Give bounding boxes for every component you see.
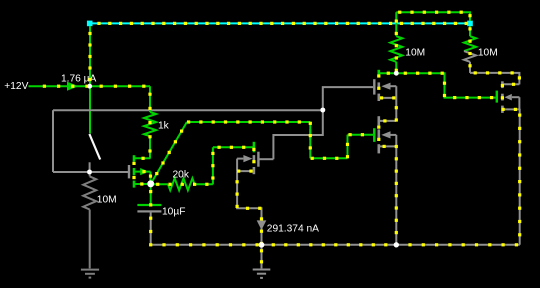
current dots top wire vertical (88, 32, 91, 35)
transistor M5 bulk lead (391, 85, 397, 87)
ground G2 (253, 269, 271, 271)
wire M3 gate net (396, 73, 495, 97)
transistor M5 drain lead (379, 72, 397, 74)
wire M2 gate net up (347, 135, 349, 159)
transistor M4 gate plate (257, 152, 259, 167)
transistor M1 bulk-source link (150, 172, 152, 184)
transistor M4 channel tick bottom (253, 167, 256, 174)
wire M2 bulk-source (395, 135, 397, 147)
node bottom rail right top (394, 242, 399, 247)
wire gray rail to M5 gate (323, 87, 373, 110)
transistor M4 channel tick top (253, 142, 256, 153)
wire R5 to M3 drain (470, 73, 519, 85)
svg-text:10M: 10M (478, 47, 498, 58)
capacitor C1 bottom plate (137, 210, 161, 212)
wire M4 gate to gray net (273, 110, 322, 159)
wire M2 source to bottom rail (395, 146, 397, 244)
node A2 junction top (259, 242, 265, 248)
transistor M1 gate plate (128, 165, 130, 178)
transistor M1 drain lead (134, 157, 151, 159)
resistor R4 10M (390, 36, 402, 62)
resistor R1 10M (83, 176, 96, 209)
svg-text:1k: 1k (158, 120, 170, 131)
switch S1 bottom contact (89, 162, 91, 172)
svg-text:10M: 10M (405, 47, 425, 58)
transistor M2 gate plate (373, 128, 375, 142)
current dots right column M3 (514, 108, 517, 111)
node gray rail junction top (320, 108, 325, 113)
post square right (467, 21, 473, 27)
node switch bottom (87, 170, 92, 175)
transistor M2 bulk arrow (381, 131, 390, 138)
transistor M2 bulk lead (391, 134, 397, 136)
transistor M4 bulk arrow (243, 155, 252, 162)
current dots path 1 (43, 85, 46, 88)
wire M3 bulk-source (518, 97, 520, 109)
resistor R3 20k (168, 178, 195, 190)
node M1 source junction (147, 180, 154, 187)
wire M2 gate net horizontal (187, 121, 310, 123)
ground G1 (81, 269, 99, 271)
wire gray box bottom / gate lead M1 (53, 171, 128, 173)
wire M1 source to capacitor (150, 184, 152, 204)
resistor R4 10M left leads (395, 12, 397, 36)
wire diagonal M1 source to M2 gate net (151, 122, 187, 184)
transistor M2 source lead (379, 145, 397, 147)
wire M5 source down (395, 86, 397, 121)
transistor M1 bulk lead (134, 171, 151, 173)
resistor R1 10M bottom-left leads (89, 172, 91, 176)
transistor M5 gate plate (373, 79, 375, 94)
transistor M1 channel ticks (133, 155, 136, 161)
transistor M3 channel tick bottom (501, 106, 504, 113)
transistor M3 source lead (502, 108, 519, 110)
svg-text:10M: 10M (97, 194, 117, 205)
current dots supply branch (468, 14, 471, 17)
current dots cap branch (149, 190, 152, 193)
ammeter A2 arrow (257, 220, 267, 230)
node bottom rail right (394, 242, 399, 247)
wire gray box left (52, 110, 54, 172)
node gray rail junction (320, 108, 325, 113)
svg-text:+12V: +12V (4, 81, 28, 92)
wire top supply branch (396, 12, 470, 21)
svg-text:291.374 nA: 291.374 nA (267, 223, 319, 234)
wire to ground 2 (261, 245, 263, 269)
transistor M2 drain lead (379, 120, 397, 122)
transistor M2 channel tick mid (377, 129, 380, 141)
wire M2 gate net right (310, 157, 347, 159)
wire bottom rail (151, 244, 520, 246)
switch S1 lever (89, 134, 100, 160)
transistor M3 bulk arrow (505, 94, 512, 101)
wire +12V rail (29, 85, 151, 87)
current dots ground 2 stub (260, 249, 263, 252)
wire gray box top (53, 109, 323, 111)
wire capacitor to rail (150, 213, 152, 245)
current dots M3 gate wire (404, 72, 407, 75)
current dots gate chain (155, 172, 158, 175)
transistor M3 drain lead (502, 83, 519, 85)
transistor M4 channel tick mid (253, 155, 256, 162)
transistor M5 channel tick mid (377, 82, 380, 89)
wire M2 gate net down (309, 122, 311, 158)
transistor M4 source lead (237, 170, 254, 172)
capacitor C1 top plate (137, 204, 161, 206)
post square left (87, 21, 93, 27)
transistor M4 bulk lead (237, 158, 243, 160)
transistor M3 gate plate (496, 91, 498, 103)
transistor M4 gate lead (258, 158, 273, 160)
transistor M2 channel tick bottom (377, 144, 380, 153)
ammeter A1 arrow (67, 82, 78, 91)
transistor M3 bulk lead (512, 96, 520, 98)
current dots M1 bulk (142, 170, 145, 173)
node A2 junction (259, 242, 265, 248)
wire to M2 gate plate (348, 134, 374, 136)
current dots selected wire (97, 22, 100, 25)
wire 20k to M4 drain (213, 146, 254, 148)
wire switch lead (89, 86, 91, 133)
svg-text:20k: 20k (173, 169, 190, 180)
wire 1k feed (149, 86, 151, 110)
wire 20k up (212, 147, 214, 184)
wire M2 gate net down overdraw (309, 129, 311, 140)
node M5 drain junction (394, 71, 399, 76)
current dots 20k path (156, 183, 159, 186)
node M5 drain junction top (394, 71, 399, 76)
transistor M5 source lead (379, 97, 397, 99)
transistor M3 channel tick top (501, 81, 504, 88)
wire M4 source down (237, 171, 261, 245)
node J1 junction top (87, 84, 92, 89)
transistor M1 bulk arrow (140, 168, 149, 175)
wire 1k to M1 drain (149, 138, 151, 158)
resistor R2 1k (144, 112, 156, 136)
resistor R5 10M right leads (469, 26, 471, 36)
wire right edge down (519, 109, 521, 245)
node M1 source junction top (147, 180, 154, 187)
node J1 junction (87, 84, 92, 89)
transistor M5 bulk arrow (381, 83, 390, 90)
transistor M1 source lead (134, 183, 151, 185)
resistor R3 20k leads (151, 183, 168, 185)
current dots rail far right (408, 243, 411, 246)
transistor M3 channel tick mid (501, 94, 504, 101)
wire selected top rail (90, 22, 470, 24)
current dots M5 column (387, 72, 390, 75)
transistor M5 channel tick bottom (377, 94, 380, 101)
svg-text:10µF: 10µF (162, 206, 185, 217)
wire to top rail (89, 26, 91, 86)
resistor R5 10M (464, 36, 476, 51)
node switch bottom top (87, 170, 92, 175)
transistor M5 channel tick top (377, 70, 380, 77)
transistor M2 channel tick top (377, 116, 380, 125)
current dots rail right (272, 243, 275, 246)
